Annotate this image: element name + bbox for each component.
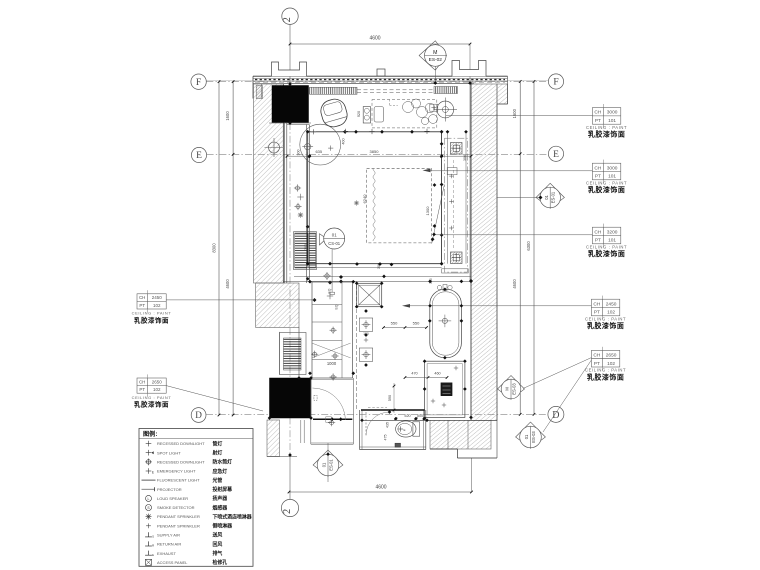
grid bubble F (right)	[548, 74, 563, 89]
vanity counter	[312, 282, 353, 378]
right wall corner hatch	[497, 84, 508, 104]
bedroom dim line 635/3850	[287, 155, 471, 157]
svg-text:下喷式酒店喷淋器: 下喷式酒店喷淋器	[213, 513, 252, 520]
svg-text:PT: PT	[595, 174, 601, 180]
svg-text:F: F	[553, 78, 558, 88]
shower room	[425, 361, 465, 417]
bathroom lower boundary	[298, 328, 300, 379]
svg-text:E: E	[152, 553, 154, 557]
svg-text:4600: 4600	[225, 279, 230, 289]
svg-text:CEILING : PAINT: CEILING : PAINT	[586, 244, 627, 249]
line below top shaft	[269, 122, 311, 124]
svg-text:CEILING : PAINT: CEILING : PAINT	[585, 316, 626, 321]
bottom wall top edge	[362, 419, 497, 421]
left wall corner lines	[252, 76, 254, 98]
top wall inner line	[253, 80, 508, 82]
bathtub drain	[442, 318, 447, 323]
floor drain box	[395, 443, 401, 447]
svg-text:101: 101	[608, 118, 616, 124]
svg-text:CH: CH	[593, 301, 600, 307]
svg-text:CS-01: CS-01	[328, 241, 341, 246]
svg-text:8300: 8300	[212, 243, 217, 253]
svg-text:E: E	[152, 470, 154, 474]
mullion column right	[452, 61, 486, 77]
svg-text:E: E	[196, 151, 202, 161]
svg-text:2: 2	[282, 509, 293, 514]
svg-text:乳胶漆饰面: 乳胶漆饰面	[588, 249, 626, 258]
left dim line 1600/4600 (x=233)	[232, 82, 234, 415]
svg-text:EMERGENCY LIGHT: EMERGENCY LIGHT	[157, 469, 196, 474]
bed diagonal leader	[432, 185, 445, 244]
svg-text:R: R	[152, 544, 154, 548]
ceiling light circle	[300, 124, 341, 165]
svg-text:01: 01	[544, 195, 549, 200]
left wall edge line	[282, 84, 284, 283]
svg-text:PT: PT	[594, 361, 600, 367]
vanity divisions	[312, 304, 342, 306]
svg-text:侧喷淋器: 侧喷淋器	[213, 523, 233, 530]
svg-text:乳胶漆饰面: 乳胶漆饰面	[587, 321, 625, 330]
ceiling tag CH3000 #1	[592, 108, 620, 125]
svg-text:乳胶漆饰面: 乳胶漆饰面	[588, 185, 626, 194]
bed dashed rect	[367, 168, 432, 243]
vanity leader tick	[313, 298, 317, 302]
svg-text:扬声器: 扬声器	[213, 495, 228, 502]
corridor-bath junction symbols	[325, 274, 329, 278]
svg-text:ES-01: ES-01	[328, 459, 333, 471]
entry symbols	[330, 421, 334, 425]
top wall line2	[253, 77, 508, 79]
svg-text:2650: 2650	[606, 353, 617, 359]
svg-text:1300: 1300	[425, 206, 430, 216]
diamond ES-01 (right)	[497, 197, 540, 199]
svg-text:1600: 1600	[225, 111, 230, 121]
closet hatched box top	[451, 143, 463, 155]
svg-text:CH: CH	[139, 379, 146, 384]
bottom wall divider lines	[447, 420, 449, 449]
svg-text:应急灯: 应急灯	[213, 468, 228, 475]
entry vestibule outline	[310, 380, 312, 444]
console with lamps	[363, 107, 370, 123]
bedroom-closet gap lines	[469, 84, 471, 281]
svg-text:ES-03: ES-03	[531, 431, 536, 443]
return air grille (corridor)	[294, 232, 317, 270]
vanity mirror X band	[312, 343, 351, 358]
svg-text:PENDANT SPRINKLER: PENDANT SPRINKLER	[157, 514, 200, 519]
dimension node ticks (bedroom)	[306, 130, 310, 134]
svg-text:PENDANT SPRINKLER: PENDANT SPRINKLER	[157, 523, 200, 528]
svg-text:SPOT LIGHT: SPOT LIGHT	[157, 450, 181, 455]
tag5 leader	[166, 386, 263, 411]
grid bubble 2 (bottom)	[281, 499, 298, 516]
svg-text:排气: 排气	[213, 550, 223, 557]
construction line (light gray)	[206, 80, 548, 82]
tag3 leader	[434, 234, 592, 236]
tag7 leaders	[523, 358, 591, 389]
svg-text:CH: CH	[594, 165, 601, 171]
svg-text:102: 102	[607, 361, 615, 367]
svg-text:400: 400	[341, 138, 345, 144]
grid bubble E (right)	[548, 146, 563, 161]
wall sprinkler crosses (top)	[311, 131, 316, 133]
diamond ES-03 (bottom right)	[516, 422, 546, 448]
closet bottom small rect	[442, 269, 469, 273]
corridor sprinkler cluster	[296, 186, 300, 190]
svg-text:烟感器: 烟感器	[213, 504, 228, 511]
top wall glazing dashes	[255, 79, 505, 81]
svg-text:360: 360	[304, 244, 308, 250]
black shaft square top	[272, 86, 309, 123]
tag4 leader	[166, 299, 314, 301]
sprinkler box 1	[359, 318, 372, 331]
svg-text:FLUORESCENT LIGHT: FLUORESCENT LIGHT	[157, 478, 200, 483]
svg-text:L: L	[148, 497, 150, 501]
svg-text:500: 500	[417, 414, 423, 418]
gridline D	[206, 414, 548, 416]
svg-text:投射屏幕: 投射屏幕	[213, 486, 233, 493]
entry porch line	[267, 456, 297, 458]
sprinkler box 2	[359, 348, 372, 361]
bathroom top wall lines	[294, 275, 471, 277]
svg-text:101: 101	[608, 238, 616, 244]
grid bubble D (left)	[191, 408, 206, 423]
ceiling tag CH3200 #3	[592, 227, 620, 244]
svg-text:01: 01	[524, 434, 529, 439]
svg-text:CEILING : PAINT: CEILING : PAINT	[586, 125, 627, 130]
svg-text:CEILING : PAINT: CEILING : PAINT	[132, 311, 172, 316]
mark between boxes	[364, 339, 368, 341]
svg-text:D: D	[195, 410, 202, 420]
bottom dimension line 4600	[289, 491, 472, 493]
corridor wall right double line	[306, 125, 308, 284]
svg-text:CEILING : PAINT: CEILING : PAINT	[132, 395, 172, 400]
left wall hatch	[254, 84, 284, 283]
svg-text:470: 470	[411, 372, 417, 376]
svg-text:PT: PT	[139, 303, 145, 308]
plant cluster	[403, 102, 414, 113]
toilet	[396, 421, 416, 437]
bedroom bottom double line	[308, 263, 442, 265]
corridor dark tick	[306, 225, 310, 229]
svg-text:乳胶漆饰面: 乳胶漆饰面	[588, 130, 626, 139]
svg-text:ES-02: ES-02	[429, 57, 443, 63]
black shaft square bottom	[270, 378, 312, 418]
svg-text:筒灯: 筒灯	[213, 440, 223, 447]
dim 550 550	[384, 327, 427, 329]
svg-text:435: 435	[386, 422, 390, 428]
ceiling light inner symbol	[305, 144, 311, 150]
mullion column mid	[377, 69, 385, 76]
svg-text:M: M	[433, 50, 437, 56]
svg-text:D: D	[552, 410, 559, 421]
curtain tick band left	[310, 87, 358, 94]
svg-text:乳胶漆饰面: 乳胶漆饰面	[134, 400, 169, 409]
svg-text:3000: 3000	[607, 165, 618, 171]
diamond M/ES-03 (bath right)	[498, 376, 525, 400]
svg-text:CH: CH	[594, 110, 601, 116]
shower inner line	[427, 364, 462, 415]
svg-text:6240: 6240	[362, 194, 367, 204]
corridor wall left double line	[284, 123, 286, 283]
svg-text:SMOKE DETECTOR: SMOKE DETECTOR	[157, 505, 195, 510]
ceiling tag CH2450 right	[591, 299, 619, 316]
bed pillow zigzag	[373, 169, 376, 241]
armchair	[318, 97, 349, 130]
svg-text:2450: 2450	[152, 295, 163, 300]
svg-text:460: 460	[434, 372, 440, 376]
svg-text:102: 102	[153, 303, 161, 308]
svg-text:CH: CH	[139, 295, 146, 300]
supply air symbol toilet	[398, 428, 403, 430]
svg-text:590: 590	[388, 395, 392, 401]
svg-text:射灯: 射灯	[212, 450, 223, 457]
grid bubble D (right)	[548, 406, 564, 422]
svg-text:CH: CH	[594, 229, 601, 235]
entry door swing	[313, 388, 346, 420]
svg-text:PT: PT	[595, 118, 601, 124]
svg-text:3000: 3000	[607, 110, 618, 116]
svg-text:6300: 6300	[526, 241, 531, 251]
svg-text:乳胶漆饰面: 乳胶漆饰面	[134, 315, 169, 324]
svg-text:101: 101	[608, 174, 616, 180]
toilet room top wall (dark)	[361, 409, 425, 411]
closet hatched box bottom	[451, 252, 463, 264]
toilet room walls	[359, 410, 361, 450]
svg-text:3200: 3200	[607, 229, 618, 235]
svg-text:3850: 3850	[370, 149, 380, 154]
left wall lower stub hatch	[267, 420, 280, 457]
svg-text:回风: 回风	[213, 541, 223, 548]
curtain tick band right	[434, 87, 458, 94]
right wall inner edge	[470, 84, 472, 420]
svg-text:PROJECTOR: PROJECTOR	[157, 487, 182, 492]
legend table	[139, 429, 253, 567]
gridline 2 bottom segment	[289, 455, 291, 499]
svg-text:送风: 送风	[212, 532, 223, 539]
svg-text:CEILING : PAINT: CEILING : PAINT	[585, 368, 626, 373]
left wall mid block hatch	[256, 283, 299, 328]
right wall outer line	[496, 104, 498, 458]
svg-text:01: 01	[332, 232, 337, 237]
svg-text:CEILING : PAINT: CEILING : PAINT	[586, 180, 627, 185]
ceiling tag CH2450 left	[137, 294, 166, 309]
wc cube with X	[357, 283, 382, 306]
svg-text:102: 102	[153, 387, 161, 392]
svg-text:PT: PT	[595, 238, 601, 244]
corridor top line	[287, 124, 310, 126]
svg-text:RETURN AIR: RETURN AIR	[157, 542, 181, 547]
ceiling tag CH3000 #2	[592, 163, 620, 180]
sprinkler star center	[354, 202, 359, 204]
svg-text:E: E	[553, 150, 559, 160]
top wall outer line	[253, 75, 508, 77]
vanity symbols	[331, 328, 335, 332]
top dimension line 4600	[290, 43, 470, 45]
tag6 leader	[409, 305, 591, 307]
svg-text:图例:: 图例:	[143, 430, 157, 438]
svg-text:475: 475	[383, 435, 387, 441]
curtain dashed lines	[357, 89, 434, 91]
svg-text:乳胶漆饰面: 乳胶漆饰面	[587, 372, 625, 381]
svg-text:4600: 4600	[369, 36, 380, 42]
right dim line 1600/4600 (x=520)	[519, 82, 521, 415]
bottom dim riser right	[471, 458, 473, 492]
svg-text:1600: 1600	[512, 108, 517, 118]
svg-text:EQ: EQ	[335, 304, 339, 309]
toilet room marks	[388, 410, 392, 414]
svg-text:RECESSED DOWNLIGHT: RECESSED DOWNLIGHT	[157, 460, 205, 465]
svg-text:550: 550	[391, 321, 398, 326]
svg-text:2650: 2650	[152, 379, 163, 384]
entry door head (dark)	[313, 418, 352, 420]
grille lower (left wall)	[280, 333, 307, 375]
top dim riser right	[469, 44, 471, 83]
svg-text:920: 920	[357, 111, 361, 117]
bathtub inner	[432, 292, 459, 355]
desk notch	[389, 100, 391, 106]
svg-text:防水筒灯: 防水筒灯	[213, 459, 233, 466]
svg-text:RECESSED DOWNLIGHT: RECESSED DOWNLIGHT	[157, 441, 205, 446]
svg-text:102: 102	[607, 310, 615, 316]
svg-text:300: 300	[463, 155, 467, 161]
entry lower lines	[311, 442, 354, 444]
svg-text:光管: 光管	[212, 477, 223, 484]
gridline 2 top segment	[289, 25, 291, 85]
closet side lines	[447, 132, 449, 264]
gridline E	[207, 153, 549, 155]
top wall inner edge	[253, 83, 474, 85]
ceiling tag CH2650 right	[591, 350, 619, 367]
svg-text:2450: 2450	[606, 301, 617, 307]
svg-text:300: 300	[297, 150, 301, 156]
svg-text:SUPPLY AIR: SUPPLY AIR	[157, 533, 180, 538]
toilet room door	[365, 412, 367, 436]
bathtub outer	[430, 289, 462, 357]
desk dashed outline	[372, 100, 437, 128]
svg-text:550: 550	[413, 321, 420, 326]
svg-text:4600: 4600	[375, 485, 386, 491]
svg-text:PT: PT	[594, 310, 600, 316]
grid bubble 2 (top)	[282, 8, 298, 24]
svg-text:ES-01: ES-01	[551, 191, 556, 203]
bathtub faucet	[437, 285, 441, 289]
bottom wall hatch	[430, 420, 491, 449]
svg-text:LOUD SPEAKER: LOUD SPEAKER	[157, 496, 188, 501]
diamond M/ES-02 (top)	[419, 41, 447, 70]
gridline 2 through plan	[289, 123, 291, 455]
svg-text:PT: PT	[139, 387, 145, 392]
svg-text:1000: 1000	[327, 361, 337, 366]
bedroom room rectangle	[308, 132, 442, 264]
misc node ticks	[288, 82, 292, 86]
ceiling tag CH2650 left	[137, 378, 166, 393]
ceiling fan symbol	[437, 101, 454, 118]
svg-text:E: E	[403, 428, 405, 432]
wall setout symbol on gridline E	[269, 142, 280, 153]
svg-text:S: S	[152, 535, 154, 539]
svg-text:ACCESS PANEL: ACCESS PANEL	[157, 560, 188, 565]
desk chair	[374, 107, 384, 122]
svg-text:F: F	[196, 77, 201, 88]
diamond ES-01 (bottom)	[313, 450, 343, 476]
svg-text:520: 520	[404, 414, 410, 418]
closet small rect	[447, 168, 457, 175]
svg-text:M: M	[505, 387, 510, 391]
gridline F	[206, 81, 548, 83]
svg-text:CH: CH	[593, 353, 600, 359]
svg-text:检修孔: 检修孔	[213, 559, 228, 566]
svg-text:635: 635	[315, 149, 322, 154]
tag2 leader	[430, 170, 592, 172]
shower marks	[431, 400, 435, 402]
tag1 leader	[446, 115, 592, 117]
left dim line 8300 (x=219)	[218, 82, 220, 415]
right dim line 6300 (x=534)	[533, 82, 535, 415]
svg-text:2: 2	[282, 17, 293, 22]
grid bubble E (left)	[191, 147, 206, 162]
dim 470/460	[405, 377, 447, 379]
mullion column left	[272, 62, 307, 76]
closet mid marks	[449, 200, 453, 202]
svg-text:4600: 4600	[512, 279, 517, 289]
tag CS-01 circle with pointer	[320, 234, 327, 245]
svg-text:EXHAUST: EXHAUST	[157, 551, 176, 556]
svg-text:EQ: EQ	[328, 288, 332, 293]
grid bubble F (left)	[191, 74, 206, 89]
svg-text:01: 01	[322, 462, 327, 467]
window sill box top-left	[256, 86, 262, 99]
svg-text:ES-03: ES-03	[511, 383, 516, 395]
bottom wall step outline	[430, 448, 457, 450]
closet dash-dot outline	[445, 138, 468, 272]
shower drain dark square	[441, 383, 452, 396]
vanity inner edge	[341, 282, 343, 378]
right wall hatch	[471, 84, 497, 420]
